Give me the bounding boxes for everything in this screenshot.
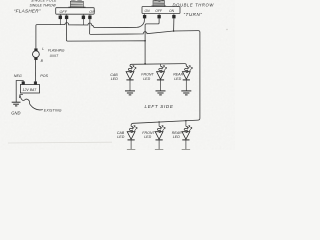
wire D4 cathode to ground xyxy=(130,140,132,150)
svg-text:OFF: OFF xyxy=(155,9,163,13)
svg-text:LED: LED xyxy=(111,77,118,81)
resistor R5 (front right) xyxy=(157,126,160,132)
svg-text:“FLASHER”: “FLASHER” xyxy=(14,8,41,13)
wire S2 pin2 left and down to left LED bus xyxy=(145,18,159,64)
battery BT1 xyxy=(20,82,39,93)
svg-text:LED: LED xyxy=(117,135,124,139)
resistor R3 (rear left) xyxy=(185,66,188,72)
svg-text:SINGLE POLE: SINGLE POLE xyxy=(31,0,57,3)
svg-text:OFF: OFF xyxy=(60,10,68,14)
S1 pin 3 xyxy=(82,14,85,19)
wire S1 pin3 stub xyxy=(82,19,84,25)
LED D4 (cab right) xyxy=(127,126,137,140)
ground GND-D1 xyxy=(125,91,135,95)
ground GND-BAT xyxy=(12,102,21,106)
svg-text:L: L xyxy=(42,47,44,51)
ground GND-D4 (clipped) xyxy=(127,149,135,151)
S1 pin 2 xyxy=(65,14,68,19)
flasher unit FL1 xyxy=(33,49,40,60)
ground GND-D5 (clipped) xyxy=(155,149,163,151)
LED D2 (front left) xyxy=(157,66,167,80)
junction dot right bus / D6 column xyxy=(185,120,186,121)
LED D3 (rear left) xyxy=(182,66,192,80)
wire flasher L up and right to S1 pins (hops over pin2/pin3 drops) xyxy=(36,23,137,49)
wire D2 cathode to ground xyxy=(160,80,162,91)
svg-text:“TURN”: “TURN” xyxy=(184,12,203,17)
wire stub bus to LED D5 xyxy=(158,122,160,126)
S1 pin 1 xyxy=(59,14,62,19)
svg-text:FLASHING: FLASHING xyxy=(48,48,65,52)
svg-text:NEG: NEG xyxy=(14,74,22,78)
resistor R4 (cab right) xyxy=(129,126,132,132)
wire D1 cathode to ground xyxy=(129,80,131,91)
wire S1 pin2 down and right to node J1 xyxy=(66,19,145,41)
S2 pin 1 xyxy=(143,14,146,19)
ground GND-D3 xyxy=(181,91,191,95)
wire S2 pin3 down to junction xyxy=(173,18,175,31)
faint paper crease xyxy=(8,141,112,144)
S1 pin 4 xyxy=(89,14,92,19)
wire D6 cathode to ground xyxy=(185,140,187,150)
wire stub bus to LED D6 xyxy=(185,121,187,127)
S2 pin 2 xyxy=(158,14,161,19)
LED D6 (rear right) xyxy=(182,126,192,140)
wire D5 cathode to ground xyxy=(158,140,160,150)
svg-text:ON: ON xyxy=(89,10,95,14)
switch S1 body (flasher toggle switch) xyxy=(56,8,94,15)
svg-text:LED: LED xyxy=(173,135,180,139)
left LED bus wire xyxy=(130,64,186,67)
svg-text:GND: GND xyxy=(11,111,20,116)
ground GND-D6 (clipped) xyxy=(182,149,190,151)
switch S1 toggle bat xyxy=(68,0,85,7)
wire S1 pin3 to S2 pin3 and down to right LED bus (hop over left riser) xyxy=(90,19,200,127)
svg-text:POS: POS xyxy=(40,74,48,78)
annotation arrow EXISTING to battery xyxy=(20,95,43,110)
svg-text:ON: ON xyxy=(169,9,175,13)
svg-text:LED: LED xyxy=(143,77,150,81)
junction dot J1 left riser / S1 pin2 wire xyxy=(144,40,146,42)
wire feed riser to S2 pin1 xyxy=(137,18,145,27)
svg-text:LED: LED xyxy=(144,135,151,139)
switch S2 toggle bat xyxy=(151,0,166,6)
junction dot S2 pin3 / right feed xyxy=(173,30,175,32)
stray mark xyxy=(226,29,227,30)
wire battery POS terminal to flasher B xyxy=(35,60,37,82)
wire S1 pin1 stub xyxy=(59,19,61,25)
S2 pin 3 xyxy=(173,14,176,19)
wire battery NEG terminal to ground xyxy=(16,81,23,103)
resistor R6 (rear right) xyxy=(184,126,187,132)
svg-text:ON: ON xyxy=(145,9,151,13)
junction dot left LED bus feed xyxy=(144,63,146,65)
wire stub bus to LED D2 xyxy=(160,64,162,67)
resistor R1 (cab left) xyxy=(128,66,131,72)
svg-text:EXISTING: EXISTING xyxy=(44,109,62,113)
LED D1 (cab left) xyxy=(126,66,136,80)
svg-text:UNIT: UNIT xyxy=(50,54,60,58)
svg-text:LED: LED xyxy=(174,77,181,81)
resistor R2 (front left) xyxy=(159,66,162,72)
junction dot right bus / D5 column xyxy=(158,121,159,122)
wire D3 cathode to ground xyxy=(185,80,187,91)
svg-text:SINGLE THROW: SINGLE THROW xyxy=(30,3,57,7)
LED D5 (front right) xyxy=(155,126,165,140)
svg-text:12V BAT: 12V BAT xyxy=(23,88,38,92)
svg-text:LEFT SIDE: LEFT SIDE xyxy=(145,104,174,109)
ground GND-D2 xyxy=(156,91,166,95)
switch S2 body (turn toggle switch) xyxy=(142,7,180,14)
